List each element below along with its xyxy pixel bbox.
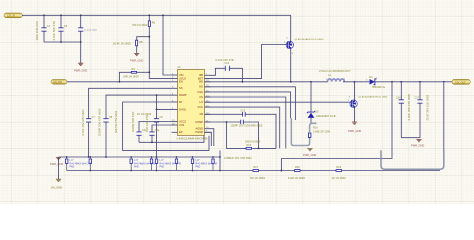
- svg-text:1K 1% 0603: 1K 1% 0603: [332, 176, 347, 180]
- svg-text:FB: FB: [200, 112, 204, 116]
- ground PWR_GND output: [411, 140, 424, 148]
- svg-text:SW: SW: [199, 80, 204, 84]
- wire VO2 cap: [152, 125, 172, 132]
- capacitor C17 polarized: [415, 82, 430, 138]
- node output junctions: [391, 81, 445, 83]
- IC pin stubs right: [205, 75, 211, 132]
- node RAMP/RT jog: [156, 94, 158, 96]
- svg-text:B5819W SL: B5819W SL: [373, 86, 386, 89]
- svg-text:N/A 5% Y5V 0603: N/A 5% Y5V 0603: [114, 110, 118, 133]
- wire R6 to R8: [137, 27, 150, 40]
- svg-text:1UF 16V X7R: 1UF 16V X7R: [145, 115, 149, 132]
- wire SW to zener: [310, 82, 312, 112]
- svg-text:732 1% 0603: 732 1% 0603: [250, 176, 266, 180]
- wire FB divider row: [67, 170, 440, 172]
- wire RT jog: [157, 95, 172, 109]
- svg-text:Q2 AO3400ADIDTR-G1 0B03: Q2 AO3400ADIDTR-G1 0B03: [358, 96, 388, 99]
- svg-text:R18: R18: [295, 166, 300, 169]
- svg-text:SYNC: SYNC: [179, 107, 186, 111]
- resistor R6 760K: [132, 15, 156, 26]
- wire port to IC EN: [67, 81, 172, 83]
- svg-text:SS: SS: [179, 86, 183, 90]
- svg-text:47UH 2.2A SRU5028-470Y: 47UH 2.2A SRU5028-470Y: [319, 69, 351, 73]
- node EN net: [148, 71, 150, 73]
- capacitor C14 bootstrap: [211, 58, 243, 82]
- IC pin names left: [179, 73, 187, 134]
- wire EN divider to IC: [149, 37, 171, 79]
- svg-text:AGND: AGND: [196, 127, 204, 131]
- wire HO gate drive: [205, 45, 284, 79]
- svg-text:CMHZ4697 10-B: CMHZ4697 10-B: [316, 114, 336, 118]
- port P2: [51, 80, 67, 85]
- svg-text:PAD: PAD: [70, 166, 75, 169]
- capacitor C VO2: [145, 115, 160, 143]
- wire CSG staircase: [205, 87, 296, 120]
- svg-text:EN_SW: EN_SW: [53, 81, 62, 84]
- svg-text:24R 1% 0603: 24R 1% 0603: [123, 74, 139, 78]
- svg-text:PWR_GND: PWR_GND: [348, 129, 361, 133]
- node jog: [156, 109, 158, 111]
- wire VIN drop to IC: [163, 15, 172, 75]
- svg-text:R17: R17: [254, 166, 259, 169]
- node COMP: [226, 121, 228, 123]
- wire bottom of input caps: [44, 41, 81, 43]
- svg-text:EN: EN: [179, 80, 183, 84]
- IC pin numbers left: [172, 73, 175, 125]
- net-tie resistor pair 2: [130, 157, 155, 171]
- node FB: [281, 170, 283, 172]
- diode D5 zener: [307, 111, 336, 124]
- svg-text:LM5118MH/NOPB: LM5118MH/NOPB: [177, 136, 208, 140]
- ground PWR_GND R8: [130, 54, 143, 63]
- thick sense bus: [291, 118, 309, 146]
- net-tie resistor pair 4: [191, 157, 216, 171]
- wire R8 to ground: [136, 46, 138, 53]
- capacitor C16: [396, 82, 411, 138]
- node R6/R8: [148, 36, 150, 38]
- svg-text:VCC2: VCC2: [179, 119, 186, 123]
- svg-text:COMP: COMP: [195, 120, 203, 124]
- svg-text:EP: EP: [179, 130, 183, 134]
- svg-text:100NF 50V X7R: 100NF 50V X7R: [131, 112, 135, 132]
- capacitor C COMP 150PF inline: [231, 120, 263, 149]
- capacitor C2: [52, 15, 68, 42]
- node SW junctions: [242, 81, 356, 83]
- ground PWR_GND Q2: [348, 122, 361, 133]
- resistor R18 6.2M: [288, 166, 305, 180]
- svg-text:VO2: VO2: [179, 123, 185, 127]
- svg-text:100V 10% X7R: 100V 10% X7R: [35, 21, 39, 40]
- wire down to ground: [80, 42, 82, 63]
- capacitor C VCC2: [131, 112, 147, 143]
- node VO2 loop: [151, 141, 153, 143]
- resistor R8 26.4K: [113, 40, 143, 46]
- svg-text:PGND: PGND: [196, 130, 204, 134]
- wire VIN top rail: [22, 14, 291, 16]
- svg-text:LO: LO: [200, 100, 203, 104]
- svg-text:PWR_GND: PWR_GND: [130, 58, 143, 62]
- svg-text:DA_GND: DA_GND: [51, 185, 62, 189]
- ground PWR_GND rail left: [50, 158, 63, 167]
- resistor R16 sense inline: [308, 123, 330, 137]
- wire comp RC row: [226, 147, 246, 149]
- wire RAMP cap: [106, 95, 172, 119]
- wire up to 24R: [119, 72, 131, 82]
- svg-text:VCC: VCC: [198, 105, 204, 109]
- svg-text:CS: CS: [199, 95, 203, 99]
- svg-text:4.7UF 10V X7R 0603: 4.7UF 10V X7R 0603: [81, 109, 85, 136]
- svg-text:0.068UF 16V X7R 0603: 0.068UF 16V X7R 0603: [224, 156, 252, 160]
- wire bottom rail: [59, 156, 221, 158]
- wire COMP down: [225, 122, 227, 148]
- svg-text:R19: R19: [337, 166, 342, 169]
- wire VCC2 cap: [139, 122, 172, 132]
- svg-text:CSG: CSG: [197, 90, 203, 94]
- svg-text:PWR_GND: PWR_GND: [303, 153, 316, 157]
- resistor R19 1K: [332, 166, 347, 180]
- wire AGND loop: [139, 136, 204, 143]
- wire 24R to EN net: [137, 71, 150, 73]
- capacitor C3: [78, 15, 97, 42]
- svg-text:6.2M 1% 0603: 6.2M 1% 0603: [288, 176, 305, 180]
- wire RT loop under IC: [123, 102, 209, 150]
- svg-text:RAMP: RAMP: [179, 93, 187, 97]
- svg-text:C17: C17: [415, 97, 420, 100]
- net-tie resistor pair 1: [66, 157, 92, 171]
- svg-text:240 1% 0603: 240 1% 0603: [245, 140, 261, 144]
- svg-text:HO: HO: [199, 85, 203, 89]
- svg-text:R16: R16: [313, 127, 318, 130]
- wire COMP pin: [205, 121, 241, 123]
- svg-text:150PF 10V COG/NP0 0603: 150PF 10V COG/NP0 0603: [231, 124, 263, 128]
- wire HOgnd staircase: [205, 92, 291, 118]
- svg-text:PAD: PAD: [196, 166, 201, 169]
- wire SW net: [205, 81, 328, 83]
- ground PWR_GND input caps: [74, 63, 87, 72]
- resistor R4 24R inline: [123, 68, 139, 78]
- capacitor C RT: [114, 109, 164, 157]
- svg-text:0.1UF 50V: 0.1UF 50V: [85, 28, 98, 32]
- net-tie resistor pair 3: [155, 157, 180, 171]
- svg-text:12V_IN: 12V_IN: [7, 15, 15, 18]
- wire rail down to FB row: [219, 150, 221, 170]
- wire CS staircase: [205, 97, 286, 148]
- svg-text:R15: R15: [247, 144, 252, 147]
- wire rail to DA GND: [58, 157, 60, 179]
- wire FB staircase: [205, 114, 277, 148]
- ground DA_GND: [51, 179, 62, 189]
- wire FB sense drop: [281, 82, 392, 171]
- svg-text:0.068 1R 1206: 0.068 1R 1206: [313, 129, 331, 133]
- svg-text:PAD: PAD: [160, 166, 165, 169]
- wire AGND down: [205, 129, 214, 146]
- wire caps bottom rail: [401, 137, 420, 139]
- svg-text:VIN: VIN: [179, 73, 183, 77]
- svg-text:PWR_GND: PWR_GND: [50, 162, 63, 166]
- svg-text:PAD: PAD: [134, 166, 139, 169]
- svg-text:C16: C16: [396, 97, 401, 100]
- svg-text:26.4K 1% 0603: 26.4K 1% 0603: [113, 42, 131, 46]
- resistor R17 732: [250, 166, 266, 180]
- IC pin numbers right: [206, 74, 209, 133]
- svg-text:4.7UF 50V X7R: 4.7UF 50V X7R: [52, 21, 56, 41]
- IC pin names right: [195, 73, 203, 134]
- svg-text:22UF 35V ELE 0605: 22UF 35V ELE 0605: [426, 94, 430, 120]
- node VIN junctions on rail: [43, 14, 164, 16]
- port VOUT: [452, 79, 470, 84]
- wire comp RC right: [252, 147, 276, 149]
- IC U1 LM5118: [177, 66, 208, 140]
- svg-text:PWR_GND: PWR_GND: [411, 144, 424, 148]
- svg-text:C15: C15: [241, 110, 246, 113]
- svg-text:12V_OUT: 12V_OUT: [455, 81, 466, 84]
- node rail junctions: [66, 156, 283, 171]
- svg-text:Q1 AO3401ADIDTR-G1 0B03: Q1 AO3401ADIDTR-G1 0B03: [295, 38, 325, 41]
- resistor R15 240R: [245, 140, 261, 150]
- svg-text:2.2UF 35V X7R 0805: 2.2UF 35V X7R 0805: [407, 93, 411, 120]
- capacitor C RAMP: [98, 108, 113, 157]
- svg-text:100NF 50V X7R 0603: 100NF 50V X7R 0603: [98, 108, 102, 136]
- svg-text:760 1% 0603: 760 1% 0603: [132, 23, 148, 27]
- wire output to divider thick: [443, 83, 445, 152]
- port P1 VIN: [4, 13, 22, 18]
- ground PWR_GND sense: [303, 149, 316, 158]
- capacitor C1: [35, 15, 51, 42]
- wire LO gate drive Q2: [205, 101, 349, 103]
- svg-text:RT: RT: [179, 100, 183, 104]
- capacitor C SS: [81, 109, 95, 157]
- wire CS2 staircase: [205, 107, 280, 148]
- svg-text:C14: C14: [225, 62, 230, 65]
- node port/24R: [119, 81, 121, 83]
- svg-text:C11: C11: [155, 129, 160, 132]
- IC pin stubs left: [172, 75, 178, 132]
- diode D3: [366, 76, 452, 89]
- svg-text:PWR_GND: PWR_GND: [74, 69, 87, 73]
- capacitor C15 0.068UF inline on FB row: [241, 110, 246, 117]
- wire SS cap: [89, 88, 172, 118]
